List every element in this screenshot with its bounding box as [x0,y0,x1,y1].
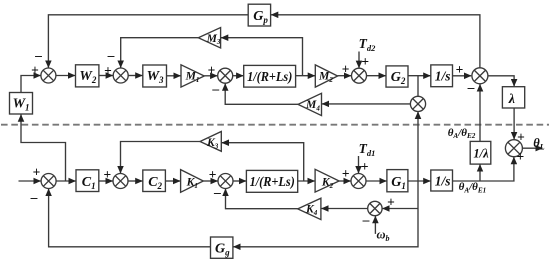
svg-text:+: + [361,54,369,69]
svg-text:+: + [209,167,217,182]
wire Gp feedback from summer S6 top [271,15,480,68]
wire 1/s to S6 [453,75,472,77]
svg-text:+: + [31,62,39,77]
svg-text:Td2: Td2 [359,36,377,53]
summer S2b [113,174,128,189]
svg-text:+: + [33,165,41,180]
block W3 [143,65,167,87]
gain K4 [298,198,321,219]
wire tap down and left into Gg input [233,181,418,247]
svg-text:1/s: 1/s [435,174,451,189]
wire M2 to S4 [338,75,352,77]
block 1/(R+Ls) lower [246,170,297,192]
svg-text:–: – [211,81,219,96]
wire omega_b input up into S7 bottom [374,216,376,234]
wire 1/(R+Ls) to M2 with tap junction [296,75,315,77]
wire 1/lambda output up into S6 bottom [479,84,481,141]
svg-text:ωb: ωb [377,228,390,244]
wire S8 output to theta_L [522,147,542,149]
wire K3 output down into S2b top [121,142,201,174]
gain M3 [198,28,220,49]
wire W2 to S2 [99,75,113,77]
gain K2 [315,169,339,192]
wire G1 to 1/s with tap junction [408,180,431,182]
wire S2b to C2 [128,180,142,182]
wire branch left into S7 right [382,208,418,210]
wire M4 output up into S3 bottom [225,84,298,105]
svg-text:+: + [208,63,216,78]
wire C2 to K1 [165,180,180,182]
svg-text:M2: M2 [318,69,333,83]
wire M3 output down into S2 [121,38,199,68]
svg-text:1/s: 1/s [435,69,451,84]
svg-text:Td1: Td1 [359,141,376,158]
wire S7 output left into K4 [321,208,367,210]
summer S6 [472,68,488,84]
wire 1/(R+Ls) to K2 with tap junction [298,180,315,182]
summer S2 [113,68,128,83]
wire tap up to M3 input [221,38,303,76]
svg-text:–: – [362,212,370,227]
wire C1 to S2b [99,180,113,182]
block G2 [386,66,408,87]
wire tap up into W1 bottom [21,115,66,182]
svg-text:–: – [30,190,38,205]
summer S4 [352,68,367,83]
block C1 [76,170,99,192]
summer S5 [410,96,425,111]
wire tap up to K3 input [222,143,304,181]
svg-text:+: + [517,149,525,164]
summer S1 [41,68,56,83]
wire G2 to 1/s with tap junction [408,75,431,77]
block 1/lambda [470,141,491,164]
wire tap down into S5 top [417,76,419,97]
svg-text:θA/θE1: θA/θE1 [459,181,487,194]
svg-text:+: + [104,63,112,78]
wire bottom-row tap up into S5 bottom [417,112,419,181]
summer S8 [505,140,522,157]
block 1/(R+Ls) upper [244,65,296,87]
wire tap up into 1/lambda bottom [479,164,481,181]
summer S3 [218,68,233,83]
block Gp [248,4,270,26]
svg-text:–: – [107,47,115,62]
svg-text:1/(R+Ls): 1/(R+Ls) [250,174,295,189]
svg-text:+: + [387,195,395,210]
wire S3b to 1/(R+Ls) [233,180,246,182]
block lambda [502,87,524,108]
svg-text:+: + [456,62,464,77]
svg-text:+: + [342,62,350,77]
block W1 [10,93,33,115]
wire S1 to W2 [56,75,75,77]
wire Td1 input down into S4b [358,156,360,173]
wire W3 to M1 [167,75,181,77]
block W2 [76,65,99,87]
dashed divider between upper and lower subsystems [1,124,549,126]
wire K1 to S3b [203,180,217,182]
gain M1 [181,65,204,87]
wire Gp output down into summer S1 [48,15,248,68]
wire 1/s output right and up into S8 bottom [453,157,514,181]
wire reference input into S1b [19,180,41,182]
wire S1b to C1 with tap junction [56,180,76,182]
wire W1 output up into summer S1 [21,76,41,93]
svg-text:+: + [104,167,112,182]
svg-text:–: – [34,48,42,63]
svg-text:M1: M1 [185,69,200,83]
block G1 [387,170,408,192]
wire S3 to 1/(R+Ls) [233,75,244,77]
svg-text:1/(R+Ls): 1/(R+Ls) [247,69,292,84]
svg-text:–: – [213,184,221,199]
wire S4b to G1 [366,180,387,182]
gain K1 [181,170,204,193]
svg-text:+: + [517,129,525,144]
svg-text:θA/θE2: θA/θE2 [448,127,476,140]
gain M2 [315,65,337,87]
gain K3 [200,132,221,152]
svg-text:1/λ: 1/λ [473,147,489,161]
block 1/s lower [431,170,453,191]
block 1/s upper [431,65,453,87]
wire S4 to G2 [367,75,386,77]
wire M1 to S3 [204,75,217,77]
wire lambda output down into S8 top [513,108,515,139]
summer S3b [218,174,233,189]
wire S5 output left into M4 [322,103,410,105]
wire S6 output right and down into lambda [488,76,514,87]
svg-text:–: – [467,79,475,94]
svg-text:+: + [342,166,350,181]
gain M4 [298,93,322,115]
block C2 [143,170,166,192]
block Gg [211,237,233,258]
wire S2 to W3 [128,75,142,77]
summer S7 [368,201,382,215]
wire Td2 input down into S4 [358,52,360,68]
wire K2 to S4b [339,180,351,182]
svg-text:θL: θL [533,136,545,152]
summer S4b [351,174,366,189]
svg-text:+: + [361,159,369,174]
wire K4 output up into S3b bottom [226,189,298,209]
svg-text:λ: λ [508,92,515,107]
wire Gg output left and up into S1b bottom [49,189,211,247]
summer S1b [41,174,56,189]
